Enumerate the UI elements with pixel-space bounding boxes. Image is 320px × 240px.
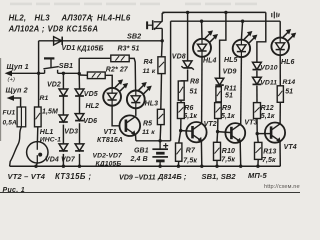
svg-text:КТ816А: КТ816А [97,137,123,144]
svg-text:R14: R14 [283,79,296,86]
label HL1 [40,129,54,136]
svg-text:HL4: HL4 [203,58,217,65]
svg-text:R5: R5 [143,120,152,127]
wire FU1 wavy down to bus [10,127,22,166]
label (+) [8,77,16,83]
diode VD6 [75,114,84,121]
wire HL5 top [241,21,242,40]
svg-text:R12: R12 [261,105,274,112]
wire R10 to bus [216,160,218,166]
wire emitter rail horizontal [136,140,171,142]
wire base node to R10 [216,132,219,143]
svg-text:SB1, SB2: SB1, SB2 [202,172,237,181]
label КД105Б value [96,160,122,167]
wire R9 to base node [217,119,219,132]
node dot bus A / VD8 column [186,11,189,14]
resistor R9 [215,103,222,119]
wire VD9 column from bus A with jog [220,12,226,78]
wire R5 to battery node [159,125,162,141]
label R6 [184,105,193,112]
label HL5 [224,57,238,64]
resistor R14 [277,86,283,103]
wire bus A right corner down with jog [257,12,266,62]
diode VD5 [75,89,84,96]
resistor R11 [216,87,221,102]
switch SB2 [147,20,162,30]
svg-text:R11: R11 [224,85,237,92]
node dot VD4 bottom [62,165,65,168]
decorative tick marks top right [272,12,279,19]
svg-text:7,5к: 7,5к [262,157,276,164]
label line2 diode types [8,24,99,33]
wire base node to R13 [257,134,258,143]
node dot bus A / VD9 column [224,11,227,14]
label HL3 [145,100,159,107]
label R13 [263,148,276,155]
svg-text:FU1: FU1 [3,109,16,116]
wire HL3 bottom to VT1 collector [135,108,137,116]
node dot VT4 base [256,132,259,135]
diode VD11 [253,77,262,84]
probe 2 lead with arrow [7,95,21,107]
svg-text:VT4: VT4 [284,144,297,151]
label VD7 [61,157,76,164]
resistor R10 [214,142,221,160]
svg-text:R13: R13 [263,148,276,155]
label SB1 [59,61,73,70]
node dot VT3 emitter [239,165,242,168]
label R10 [222,148,235,155]
svg-text:Щуп 2: Щуп 2 [6,86,28,95]
svg-text:VD5: VD5 [84,91,98,98]
wire bus A top [162,11,265,13]
wire VD8 to R8 jog [181,70,187,82]
wire left bus to R1 [38,73,40,107]
svg-text:7,5к: 7,5к [221,157,235,164]
resistor R2 [87,72,105,79]
label VD6 [83,118,97,125]
svg-text:VD10: VD10 [260,64,278,71]
wire node down to R4 [161,41,164,57]
svg-text:1,5М: 1,5М [42,108,58,115]
diode VD9 [215,78,223,85]
label VD1 [62,45,76,52]
label R4 [144,59,153,66]
node dot battery minus [158,165,161,168]
label R12 [261,105,274,112]
label R14 [283,79,296,86]
transistor VT1 [120,115,141,136]
wire R3 right corner to HL3 column [129,58,135,90]
wire VD11 to R12 [256,86,258,103]
label VD2-VD7 [93,152,124,159]
label SB2 [127,32,141,41]
diode VD10 [253,62,262,69]
label R2* 27 [106,67,129,74]
svg-text:КТ315Б ;: КТ315Б ; [55,172,92,181]
svg-text:Щуп 1: Щуп 1 [7,62,29,71]
label VD9 [223,69,237,76]
faint page bleed-through top [10,3,257,6]
svg-text:;: ; [91,13,94,22]
node dot VT3 base [216,130,219,133]
switch SB1 [43,58,58,73]
label R6 value 5,1к [183,113,197,120]
node dot R13 bottom [256,165,259,168]
wire R7 to bus [177,161,179,166]
wire VD7 to bus [79,154,81,166]
wire SB2 to node [161,28,163,41]
label R7 [186,147,196,154]
wire VD8 column from bus A [187,12,189,61]
wire VD4 to bus [62,154,64,166]
battery GB1 [152,141,168,166]
svg-text:R1: R1 [40,95,49,102]
svg-text:VT2 – VT4: VT2 – VT4 [8,172,46,181]
svg-text:КД105Б: КД105Б [77,45,104,52]
svg-text:HL4-HL6: HL4-HL6 [97,13,131,22]
svg-text:ИНС-1: ИНС-1 [40,136,61,143]
svg-text:HL3: HL3 [35,13,51,22]
svg-text:0,5А: 0,5А [3,119,17,126]
label VT4 [284,144,297,151]
resistor R12 [254,103,261,119]
resistor R3 [111,55,129,62]
svg-text:R3* 51: R3* 51 [118,45,140,52]
node dot HL1 bottom [34,165,37,168]
node dot R10 bottom [215,165,218,168]
diode VD1 [54,37,63,45]
wire VT1 emitter down [135,135,137,141]
svg-text:R2* 27: R2* 27 [106,67,129,74]
svg-text:VT1: VT1 [104,129,117,136]
svg-text:5,1к: 5,1к [261,113,275,120]
wire R13 to bus [257,159,259,166]
svg-text:VD1: VD1 [62,45,76,52]
resistor R8 [178,81,184,100]
node dot probe wire / left bus [37,72,40,75]
probe 1 arrow [5,70,45,76]
svg-text:R8: R8 [190,78,199,85]
label VD5 [84,91,98,98]
svg-text:АЛ102А ;: АЛ102А ; [8,24,45,33]
label R8 value 51 [190,88,198,95]
caption Д814Б [157,172,187,181]
label VD3 [64,128,78,135]
wire HL4 to VT2 collector [201,57,203,124]
svg-text:51: 51 [190,88,198,95]
svg-text:VD2-VD7: VD2-VD7 [93,152,124,159]
svg-text:VD8: VD8 [48,24,64,33]
wire VD2 column top [62,73,64,89]
svg-text:2,4 В: 2,4 В [130,156,148,163]
svg-text:SB1: SB1 [59,61,73,70]
label R3* 51 [118,45,140,52]
label HL2 [86,103,100,110]
svg-text:11 к: 11 к [142,129,155,136]
wire HL6 to R14 [279,55,281,86]
label VT1 [104,129,117,136]
transistor VT2 [186,122,206,142]
svg-text:7,5к: 7,5к [183,157,197,164]
label GB1 [134,147,149,154]
label VD1 value КД105Б [77,45,104,52]
label R4 value 11 к [143,68,156,75]
resistor R1 [35,107,42,127]
svg-text:HL5: HL5 [224,57,238,64]
wire R6 to base node [180,119,182,131]
wire HL2 bottom to VT1 base [112,106,120,126]
label VD2 [47,81,61,88]
wire VD1 horizontal [39,40,163,42]
diode VD4 [59,144,68,151]
svg-text:VD9 –VD11: VD9 –VD11 [119,173,156,182]
node dot VD1 wire junction [161,39,164,42]
caption VD9-VD11 [119,173,156,182]
svg-text:VD9: VD9 [223,69,237,76]
wire VT2 base [181,130,193,133]
caption МП-5 [248,171,267,180]
svg-text:VD2: VD2 [47,81,61,88]
svg-text:SB2: SB2 [127,32,141,41]
resistor R4 [158,57,165,74]
diode VD2 [59,89,68,96]
label FU1 value 0,5А [3,119,17,126]
svg-text:5,1к: 5,1к [221,113,235,120]
label R9 [222,105,231,112]
label R8 [190,78,199,85]
LED HL2 [103,79,128,105]
node dot VT2 base [179,129,182,132]
wire VT2 emitter to bus [200,141,202,166]
zener diode VD8 [181,61,193,70]
label VD4 [45,157,59,164]
wire VT4 emitter to bus [279,141,281,166]
wire R14 to VT4 collector [279,102,281,124]
svg-text:HL3: HL3 [145,100,159,107]
resistor R5 [157,109,164,124]
label R11 [224,85,237,92]
wire HL1 to bottom bus [36,163,37,166]
label Щуп 2 [6,86,28,95]
svg-text:R10: R10 [222,148,235,155]
label R9 value 5,1к [221,113,235,120]
wire node up to R3 wire [78,58,80,73]
svg-text:http://схем.net: http://схем.net [264,184,300,190]
svg-text:КС156А: КС156А [67,24,99,33]
svg-text:VD4: VD4 [45,157,59,164]
wire VD5 column top [78,74,80,89]
label R7 value 7,5к [183,157,197,164]
label R13 value 7,5к [262,157,276,164]
label R5 [143,120,152,127]
wire base node to R7 [179,131,181,143]
svg-text:VT2: VT2 [204,121,217,128]
label R12 value 5,1к [261,113,275,120]
node dot VD2 top [62,72,65,75]
wire R2 left segment [79,74,87,76]
svg-text:HL2: HL2 [86,103,100,110]
label HL1 type ИНС-1 [40,136,61,143]
diode VD7 [75,144,84,151]
bottom page edge line [0,191,300,193]
label R10 value 7,5к [221,157,235,164]
wire emitter rail up right to bus B [170,21,172,141]
node dot R7 bottom [177,165,180,168]
LED HL3 [127,82,152,108]
LED HL6 [271,29,296,55]
wire R2 right corner to HL2 column [105,75,112,88]
label R1 value 1,5М [42,108,58,115]
node dot R2/VD5 node [78,72,81,75]
node dot VT2 emitter [200,165,203,168]
svg-text:VD7: VD7 [61,157,76,164]
svg-text:51: 51 [225,93,233,100]
wire R4 to R5 [160,74,163,110]
caption Рис. 1 [3,187,25,194]
left page edge artifact [0,58,2,141]
label R1 [40,95,49,102]
label VT2 [204,121,217,128]
label R11 value 51 [225,93,233,100]
svg-text:VD3: VD3 [64,128,78,135]
label FU1 [3,109,16,116]
label VT1 type КТ816А [97,137,123,144]
svg-text:(+): (+) [8,77,16,83]
transistor VT3 [225,123,245,143]
wire VD10-VD11 [256,71,258,77]
wire HL4 top [201,21,203,39]
wire R3 left segment [79,57,111,59]
label R14 value 51 [285,88,293,95]
wire VD5-VD6 [79,97,81,114]
svg-text:Д814Б ;: Д814Б ; [157,172,187,181]
svg-text:VT3: VT3 [244,120,257,127]
wire VT4 base [257,133,271,135]
label VD8 [172,53,186,60]
wire R8 to R6 [180,100,182,102]
wire bus B [171,20,281,22]
fuse FU1 [17,107,26,127]
wire R12 to base node [256,119,258,134]
node dot bus B / HL5 [241,20,244,23]
svg-text:R9: R9 [222,105,231,112]
wire VT3 emitter to bus [239,142,242,167]
label Щуп 1 [7,62,29,71]
svg-text:11 к: 11 к [143,68,156,75]
resistor R7 [176,143,182,161]
label line1 HL types [9,13,131,22]
wire bottom bus [10,165,281,167]
transistor VT4 [265,123,285,143]
svg-text:5,1к: 5,1к [183,113,197,120]
svg-text:R7: R7 [186,147,196,154]
LED HL4 [193,30,218,56]
watermark схем.net [264,184,302,190]
label HL6 [281,59,295,66]
neon lamp HL1 [27,142,48,163]
wire R1 to HL1 [36,127,38,142]
wire VD6-VD7 [79,123,81,144]
wire bus B right corner to HL6 [279,21,281,37]
svg-text:HL6: HL6 [281,59,295,66]
svg-text:VD8: VD8 [172,53,186,60]
svg-text:R4: R4 [144,59,153,66]
svg-text:HL1: HL1 [40,129,54,136]
wire VT3 base [218,132,232,133]
svg-text:МП-5: МП-5 [248,171,267,180]
label R5 value 11 к [142,129,155,136]
svg-text:R6: R6 [184,105,193,112]
label GB1 value 2,4В [130,156,148,163]
LED HL5 [233,31,258,57]
wire probe1 segment right of SB1 [58,72,80,74]
svg-text:VD6: VD6 [83,118,97,125]
label VD10 [260,64,278,71]
label HL4 [203,58,217,65]
svg-text:VD11: VD11 [260,79,277,86]
wire VD3-VD4 [62,125,64,144]
wire VD2-VD3 [62,97,64,115]
node dot bus B / HL4 [200,20,203,23]
label VT3 [244,120,257,127]
node dot VD7 bottom [78,165,81,168]
resistor R13 [255,142,262,159]
wire left vertical from VD1 wire to probe wire [38,41,40,74]
svg-text:51: 51 [285,88,293,95]
label VD11 [260,79,277,86]
svg-text:HL2,: HL2, [9,13,27,22]
svg-text:АЛ307А: АЛ307А [61,13,93,22]
wire bus A left corner down [162,12,164,21]
node dot battery plus [158,139,161,142]
svg-text:GB1: GB1 [134,147,149,154]
resistor R6 [177,103,184,119]
caption transistors VT2-VT4 [8,172,92,181]
diode VD3 [59,115,68,122]
wire HL5 to VT3 collector [240,57,243,124]
caption SB1 SB2 [202,172,237,181]
